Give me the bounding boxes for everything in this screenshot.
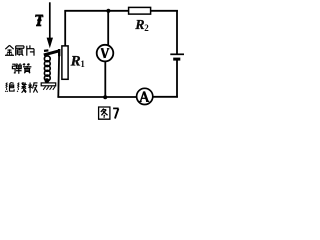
- svg-text:R: R: [70, 53, 81, 69]
- svg-text:1: 1: [80, 59, 85, 69]
- svg-text:R: R: [134, 18, 144, 33]
- svg-text:2: 2: [144, 23, 149, 33]
